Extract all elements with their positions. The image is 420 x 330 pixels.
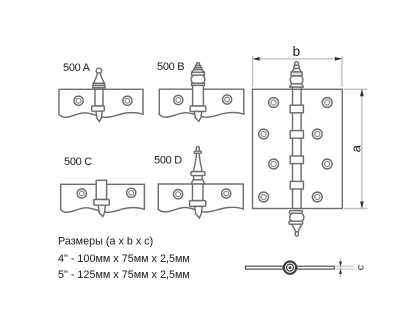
svg-text:500 B: 500 B bbox=[157, 61, 184, 73]
big hinge bottom spire bbox=[292, 224, 302, 232]
side view left leaf bar bbox=[245, 266, 283, 269]
dimension c extension lines bbox=[335, 266, 354, 269]
big hinge top finial grey disc bbox=[291, 72, 302, 76]
hinge 500D finial collar disc bbox=[191, 172, 205, 176]
dimension a extension lines bbox=[344, 89, 368, 208]
svg-text:4" - 100мм x 75мм x 2,5мм: 4" - 100мм x 75мм x 2,5мм bbox=[58, 253, 190, 265]
hinge 500B leaf bbox=[159, 89, 244, 117]
hinge 500D leaf bbox=[158, 184, 243, 212]
hinge 500C collar band bbox=[94, 200, 109, 206]
dimension c line bbox=[340, 259, 342, 278]
hinge 500D finial knob bbox=[196, 147, 199, 152]
big hinge knuckle bands bbox=[290, 105, 303, 189]
side view right leaf bar bbox=[297, 266, 334, 269]
hinge 500D finial spire bbox=[193, 153, 202, 171]
hinge 500A collar band bbox=[92, 106, 105, 111]
svg-text:b: b bbox=[293, 44, 301, 59]
hinge 500D screw hole left bbox=[174, 190, 183, 199]
dimension b line bbox=[253, 58, 341, 60]
hinge 500D finial flared base bbox=[192, 180, 205, 184]
hinge 500D collar band bbox=[190, 201, 206, 207]
svg-text:Размеры (a x b x c): Размеры (a x b x c) bbox=[58, 236, 153, 248]
big hinge bottom finial bulge bbox=[290, 213, 304, 221]
svg-text:5" - 125мм x 75мм x 2,5мм: 5" - 125мм x 75мм x 2,5мм bbox=[58, 269, 190, 281]
hinge 500C pin bbox=[98, 205, 105, 216]
big hinge barrel bbox=[293, 89, 302, 208]
svg-text:500 A: 500 A bbox=[63, 62, 91, 74]
big hinge top finial neck bbox=[294, 65, 300, 68]
big hinge screw holes left leaf bbox=[259, 98, 279, 202]
hinge 500B finial bulge bbox=[191, 75, 205, 83]
hinge 500B finial flare bbox=[192, 70, 204, 73]
hinge 500D finial top disc bbox=[194, 151, 201, 153]
hinge 500A screw hole right bbox=[123, 96, 132, 105]
svg-text:500 C: 500 C bbox=[64, 156, 92, 168]
big hinge bottom tip knob bbox=[295, 232, 298, 237]
big hinge top finial flared disc bbox=[290, 84, 303, 87]
dimension a arrowheads bbox=[360, 89, 364, 208]
side view barrel circle bbox=[284, 261, 296, 273]
hinge 500C barrel flat-top bbox=[96, 180, 106, 199]
big hinge bottom finial lower disc bbox=[289, 221, 303, 224]
hinge 500C screw hole left bbox=[77, 189, 86, 198]
hinge 500B barrel bbox=[193, 85, 204, 106]
hinge 500A finial bell bbox=[94, 73, 105, 83]
hinge 500C screw hole right bbox=[127, 188, 136, 197]
hinge 500A screw hole left bbox=[74, 96, 83, 105]
svg-text:c: c bbox=[355, 265, 366, 270]
big hinge screw holes right leaf bbox=[312, 98, 332, 202]
svg-text:a: a bbox=[349, 144, 364, 152]
big hinge top finial vase bulge bbox=[290, 76, 303, 84]
hinge 500A pin bbox=[96, 111, 102, 121]
hinge 500D finial neck bbox=[194, 176, 202, 180]
hinge 500B finial thick disc bbox=[192, 72, 205, 75]
hinge 500B collar band bbox=[190, 106, 206, 112]
big hinge bottom finial disc bbox=[289, 211, 302, 214]
hinge 500D screw hole right bbox=[222, 189, 231, 198]
hinge 500B finial knob bbox=[197, 63, 200, 66]
hinge 500B screw hole left bbox=[174, 95, 183, 104]
hinge 500D pin bbox=[195, 206, 203, 218]
big hinge top finial step flare bbox=[292, 69, 301, 72]
big hinge top neck to plate bbox=[293, 87, 302, 89]
svg-text:500 D: 500 D bbox=[154, 155, 182, 167]
dimension b extension lines bbox=[253, 56, 342, 87]
hinge 500B pin bbox=[194, 112, 202, 122]
big hinge top finial dome bbox=[295, 62, 299, 66]
hinge 500B finial lower disc bbox=[192, 83, 205, 85]
hinge 500D barrel bbox=[193, 184, 204, 201]
hinge 500A leaf bbox=[59, 89, 143, 117]
big hinge plate bbox=[253, 89, 343, 208]
hinge 500B finial steps bbox=[194, 66, 201, 70]
hinge 500A finial collar discs bbox=[93, 83, 105, 89]
dimension a line bbox=[361, 90, 363, 208]
hinge 500A finial ball bbox=[96, 68, 101, 73]
hinge 500C leaf bbox=[61, 184, 145, 212]
hinge 500A barrel bbox=[95, 89, 103, 106]
dimension c arrowheads bbox=[339, 262, 342, 274]
dimension b arrowheads bbox=[253, 57, 342, 61]
hinge 500B screw hole right bbox=[223, 95, 232, 104]
